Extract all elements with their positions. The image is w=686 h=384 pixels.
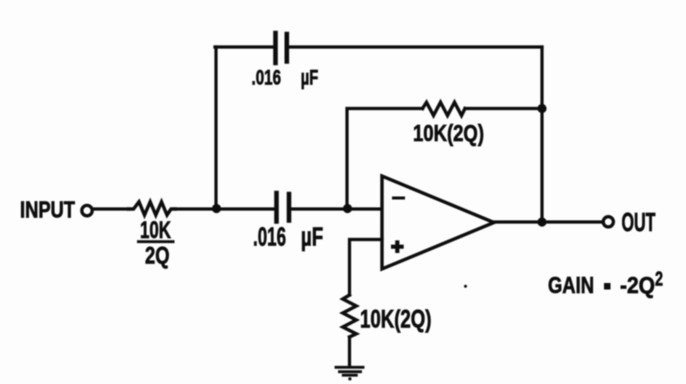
svg-text:OUT: OUT — [622, 209, 656, 237]
svg-text:µF: µF — [301, 224, 323, 252]
svg-text:.016: .016 — [252, 65, 282, 89]
svg-text:10K(2Q): 10K(2Q) — [360, 306, 432, 334]
svg-text:INPUT: INPUT — [20, 197, 75, 223]
svg-text:10K(2Q): 10K(2Q) — [413, 120, 484, 146]
svg-text:.016: .016 — [253, 224, 286, 252]
svg-text:-2Q: -2Q — [620, 272, 655, 298]
svg-text:10K: 10K — [140, 217, 171, 244]
svg-text:µF: µF — [301, 65, 319, 89]
svg-text:2Q: 2Q — [145, 243, 170, 270]
svg-text:GAIN: GAIN — [548, 272, 594, 298]
svg-text:2: 2 — [655, 269, 663, 291]
